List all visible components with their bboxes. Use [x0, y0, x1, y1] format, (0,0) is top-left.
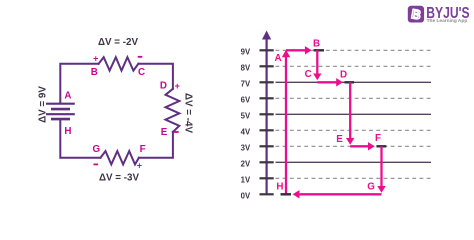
svg-text:C: C — [138, 67, 145, 78]
svg-text:G: G — [92, 144, 100, 155]
voltage axis — [262, 31, 271, 195]
arrow A to B at 9V — [286, 46, 312, 54]
battery ΔV=9V — [46, 104, 75, 119]
axis tick 3V — [241, 143, 274, 152]
axis tick 8V — [241, 63, 274, 72]
svg-text:E: E — [336, 134, 343, 145]
svg-text:E: E — [161, 127, 168, 138]
arrow H to A rise 0V→9V — [282, 50, 290, 195]
svg-text:1V: 1V — [241, 175, 251, 184]
svg-text:2V: 2V — [241, 159, 251, 168]
node tick F — [377, 145, 387, 147]
svg-text:3V: 3V — [241, 143, 251, 152]
dashed level line 6V — [276, 97, 432, 99]
dashed level line 9V — [276, 49, 432, 51]
axis tick 5V — [241, 111, 274, 120]
node tick B — [314, 49, 324, 51]
axis tick 4V — [241, 127, 274, 136]
resistor right (D-E) — [166, 89, 180, 132]
svg-text:4V: 4V — [241, 127, 251, 136]
wire top-right segment — [138, 64, 173, 89]
minus sign top resistor — [138, 56, 143, 58]
BYJU'S logo — [408, 5, 470, 24]
svg-text:F: F — [140, 144, 146, 155]
svg-text:B: B — [313, 38, 320, 49]
axis tick 7V — [241, 79, 274, 88]
wire bottom-right segment — [139, 132, 173, 158]
minus sign right resistor — [174, 131, 179, 133]
svg-text:H: H — [64, 126, 71, 137]
dashed level line 1V — [276, 177, 432, 179]
axis tick 0V — [241, 191, 274, 200]
svg-text:ΔV = -2V: ΔV = -2V — [98, 37, 138, 48]
solid level line 2V — [276, 161, 432, 163]
node tick H — [281, 193, 292, 195]
axis tick 6V — [241, 95, 274, 104]
svg-text:B: B — [91, 67, 98, 78]
solid level line 7V — [276, 81, 432, 83]
axis tick 1V — [241, 175, 274, 184]
arrow D to E drop 7V→3V — [346, 82, 354, 145]
arrow C to D at 7V — [317, 78, 343, 86]
svg-text:D: D — [340, 70, 347, 81]
dashed level line 4V — [276, 129, 432, 131]
node tick D — [345, 81, 355, 83]
wire top-left segment — [60, 64, 98, 104]
solid level line 5V — [276, 113, 432, 115]
svg-text:ΔV = 9V: ΔV = 9V — [38, 86, 49, 123]
svg-text:+: + — [137, 161, 142, 171]
arrow B to C drop 9V→7V — [313, 50, 321, 80]
svg-text:8V: 8V — [241, 63, 251, 72]
resistor top (B-C) — [99, 57, 139, 70]
wire bottom-left segment — [60, 119, 100, 157]
axis tick 2V — [241, 159, 274, 168]
svg-text:A: A — [64, 91, 71, 102]
minus sign bottom resistor — [94, 164, 99, 166]
svg-text:D: D — [160, 80, 167, 91]
arrow G to H at 0V — [293, 190, 382, 198]
svg-text:C: C — [305, 69, 312, 80]
svg-text:5V: 5V — [241, 111, 251, 120]
svg-text:+: + — [93, 54, 98, 64]
svg-text:9V: 9V — [241, 47, 251, 56]
svg-text:H: H — [276, 181, 283, 192]
svg-text:The Learning App: The Learning App — [427, 18, 468, 24]
svg-text:G: G — [367, 182, 375, 193]
arrow E to F at 3V — [350, 142, 375, 150]
svg-text:A: A — [274, 53, 281, 64]
svg-text:7V: 7V — [241, 79, 251, 88]
dashed level line 3V — [276, 145, 432, 147]
svg-text:ΔV = -4V: ΔV = -4V — [183, 93, 194, 133]
dashed level line 8V — [276, 65, 432, 67]
arrow F to G drop 3V→0V — [377, 146, 385, 193]
axis tick 9V — [241, 47, 274, 56]
svg-text:F: F — [375, 133, 381, 144]
svg-text:ΔV = -3V: ΔV = -3V — [99, 173, 139, 184]
svg-text:6V: 6V — [241, 95, 251, 104]
svg-text:+: + — [175, 81, 180, 91]
svg-text:0V: 0V — [241, 191, 251, 200]
resistor bottom (G-F) — [101, 151, 139, 164]
